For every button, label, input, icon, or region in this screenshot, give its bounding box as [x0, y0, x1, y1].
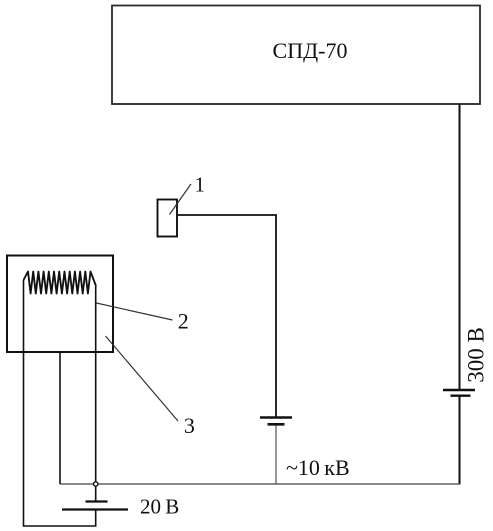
leader line to label 3 — [106, 336, 179, 421]
probe 1 (collector plate) — [158, 200, 178, 237]
common rail wire (horizontal) — [60, 483, 460, 485]
leader line to label 2 — [96, 303, 172, 320]
label 1 — [195, 173, 206, 197]
battery B3 20 В — [62, 502, 128, 510]
label ~10 кВ — [286, 455, 350, 480]
svg-text:20 В: 20 В — [140, 495, 179, 519]
chamber 3 (vacuum chamber box) — [7, 256, 113, 353]
svg-text:СПД-70: СПД-70 — [273, 38, 348, 63]
wire from probe 1 to battery ~10 кВ — [178, 215, 277, 417]
wire from battery 300 В to common rail — [459, 397, 461, 485]
block U1 СПД-70 — [112, 6, 480, 105]
battery B2 ~10 кВ — [260, 418, 292, 425]
heater coil 2 (cathode filament zigzag) — [24, 272, 97, 294]
label 300 В (rotated) — [464, 327, 489, 383]
svg-text:3: 3 — [184, 413, 195, 438]
wire cathode right lead (to junction and 20 В battery) — [95, 286, 97, 501]
wire from СПД-70 to battery 300 В — [459, 104, 461, 389]
label 2 — [178, 309, 189, 334]
wire from battery ~10 кВ to common rail — [275, 426, 277, 485]
label 3 — [184, 413, 195, 438]
svg-text:2: 2 — [178, 309, 189, 334]
label СПД-70 — [273, 38, 348, 63]
label 20 В — [140, 495, 179, 519]
svg-text:300 В: 300 В — [464, 327, 489, 383]
battery B1 300 В — [443, 390, 475, 396]
svg-text:~10 кВ: ~10 кВ — [286, 455, 350, 480]
node junction on common rail — [94, 482, 98, 486]
leader line to label 1 — [170, 184, 192, 215]
wire cathode left lead (down to bottom loop) — [24, 280, 96, 526]
svg-text:1: 1 — [195, 173, 206, 197]
wire chamber lead to common rail — [59, 352, 61, 484]
